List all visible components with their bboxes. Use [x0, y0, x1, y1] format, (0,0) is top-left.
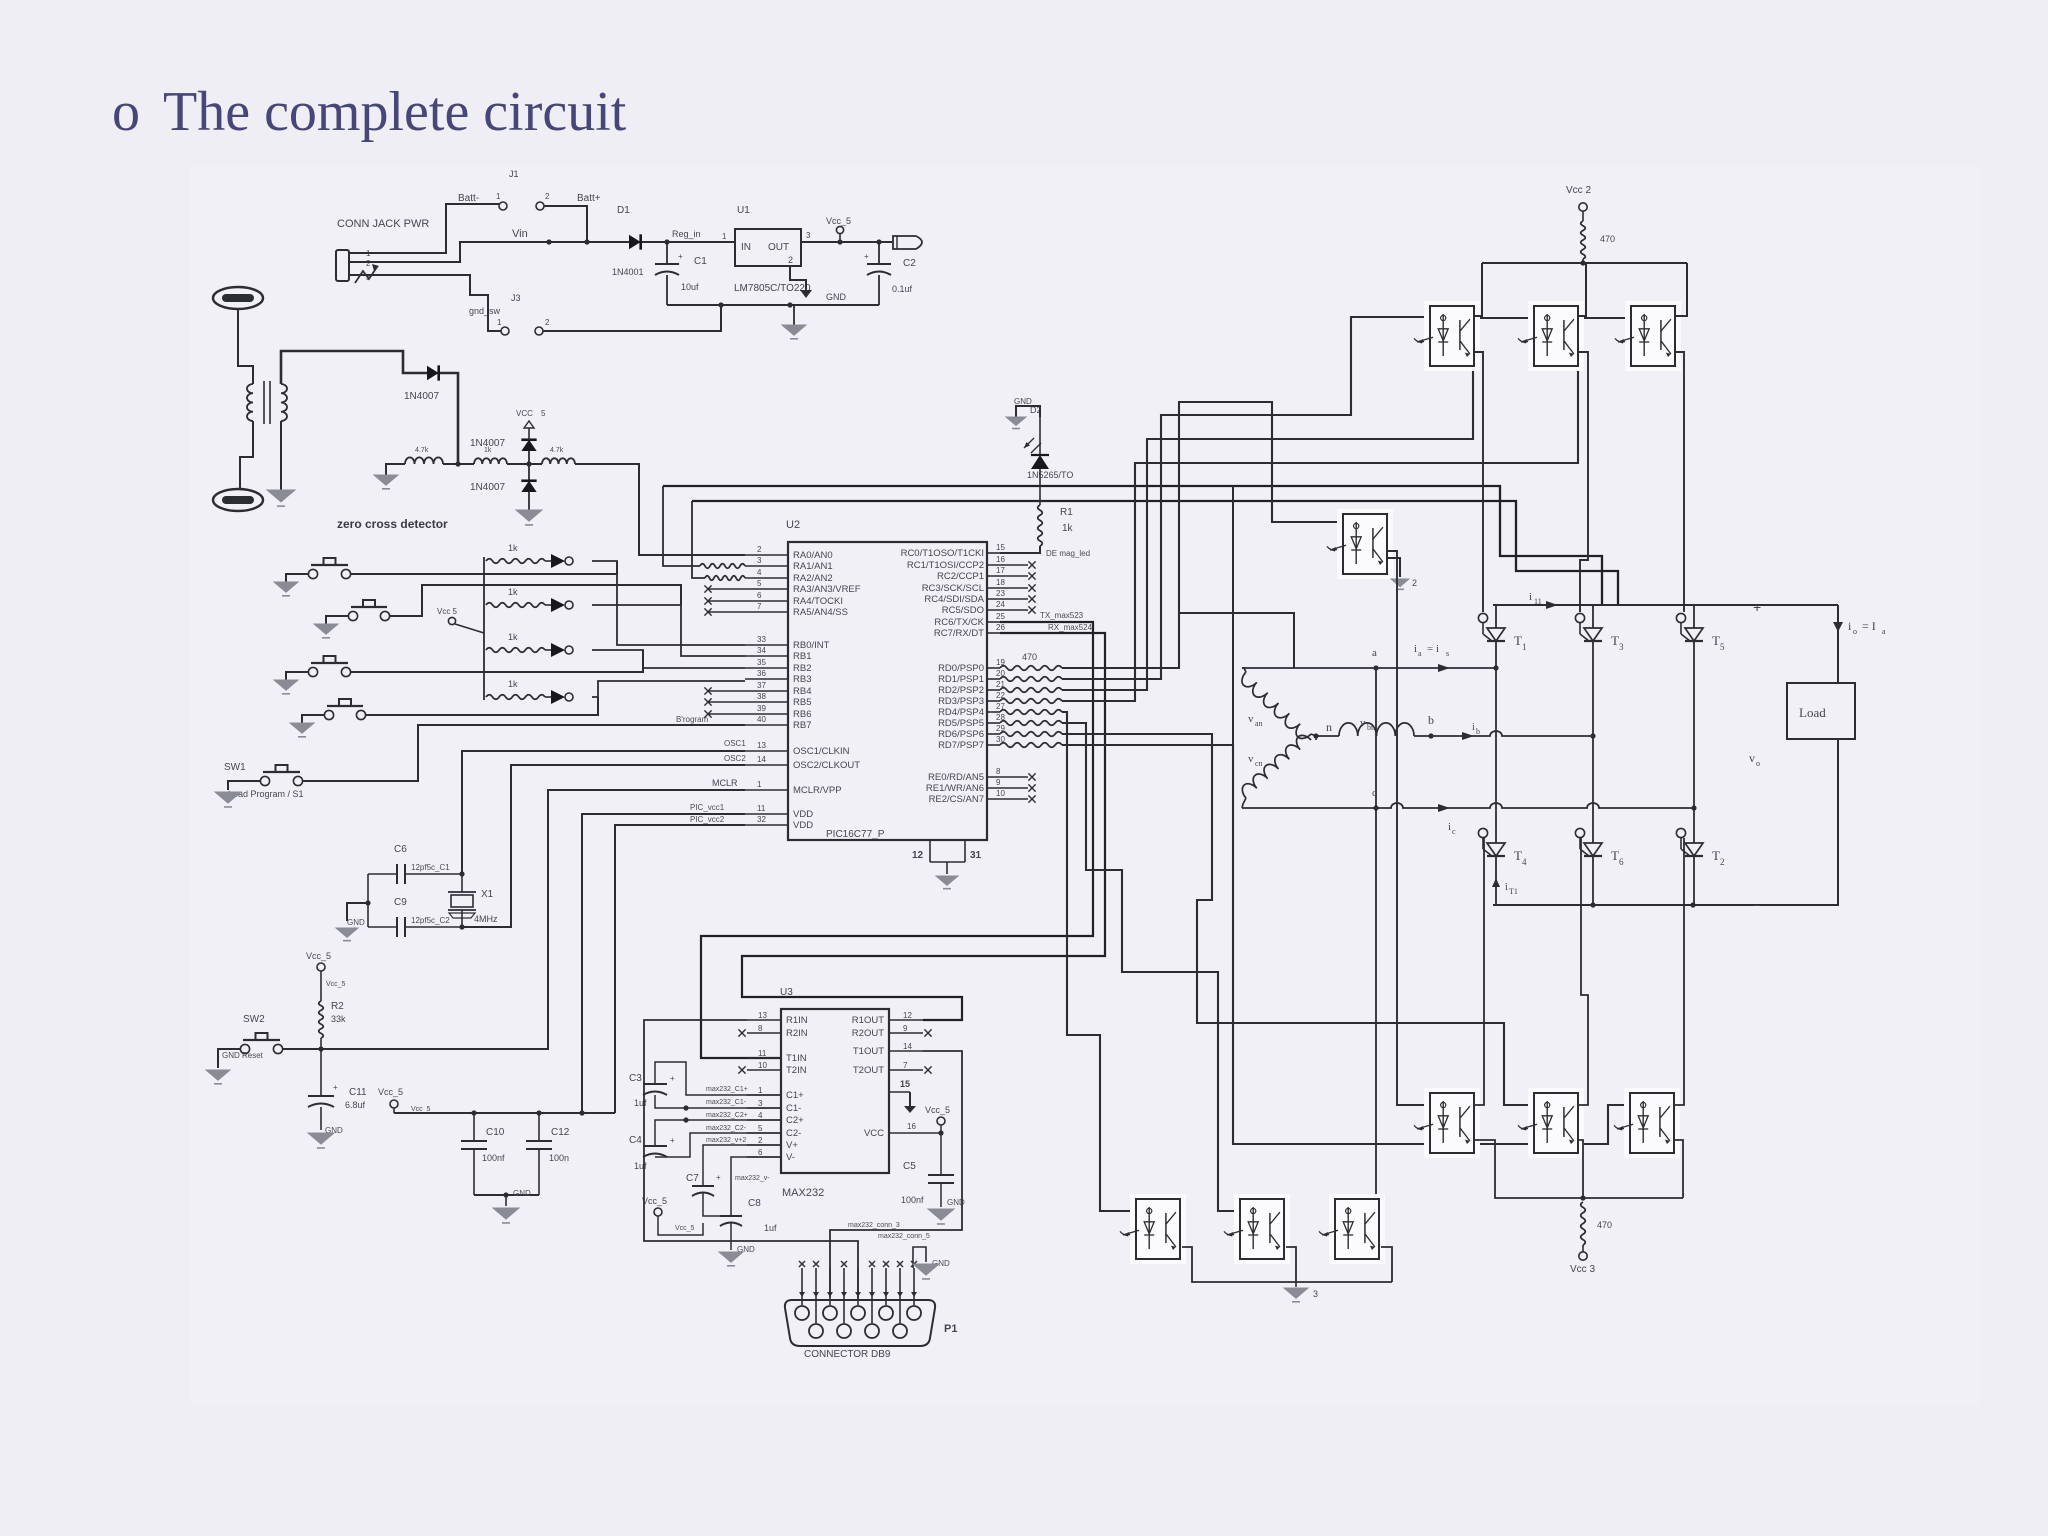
svg-text:10: 10 [996, 789, 1005, 798]
wire opto3 out to T5 gate [1675, 352, 1684, 612]
svg-text:n: n [1326, 720, 1332, 734]
svg-text:C8: C8 [748, 1198, 761, 1209]
svg-text:Vcc_5: Vcc_5 [378, 1087, 403, 1097]
wire button 3 to row [351, 650, 643, 672]
wire button 1 to ground [286, 574, 308, 582]
svg-text:RA1/AN1: RA1/AN1 [793, 561, 833, 572]
svg-text:a: a [1372, 647, 1377, 659]
svg-text:15: 15 [996, 543, 1005, 552]
svg-text:RB6: RB6 [793, 709, 811, 720]
inductor L detector 3 [542, 447, 575, 464]
svg-text:MCLR/VPP: MCLR/VPP [793, 785, 842, 796]
ground arrow at U1 pin2 [800, 290, 812, 298]
svg-text:i: i [1529, 591, 1532, 603]
svg-text:31: 31 [970, 850, 982, 861]
wire RD0 to optocoupler [1062, 402, 1343, 668]
svg-text:5: 5 [758, 1124, 763, 1133]
regulator U1 LM7805 [734, 205, 811, 294]
svg-text:35: 35 [757, 658, 766, 667]
pin 8 RE0/RD/AN5 [928, 767, 1036, 783]
svg-text:RB4: RB4 [793, 686, 811, 697]
svg-text:RD2/PSP2: RD2/PSP2 [938, 685, 984, 696]
svg-text:T1IN: T1IN [786, 1053, 807, 1064]
svg-text:RD6/PSP6: RD6/PSP6 [938, 729, 984, 740]
title text [163, 81, 627, 143]
pin 22 RD3/PSP3 [938, 691, 1005, 707]
pin 12 R1OUT U3 [852, 1011, 923, 1026]
svg-text:max232_v-: max232_v- [735, 1175, 770, 1182]
svg-text:+: + [670, 1074, 675, 1083]
svg-text:GND: GND [826, 292, 847, 302]
wire R1IN to DB9 [644, 1020, 930, 1300]
resistor RA1 input [700, 564, 745, 569]
optocoupler top 1 [1414, 301, 1480, 371]
svg-text:zero cross detector: zero cross detector [337, 517, 448, 531]
svg-text:J3: J3 [511, 293, 521, 303]
svg-text:R2IN: R2IN [786, 1028, 808, 1039]
svg-text:11: 11 [757, 804, 766, 813]
pin 10 RE2/CS/AN7 [929, 789, 1036, 805]
wire RD4 to optocoupler [1062, 712, 1136, 1211]
pin 3 RA1/AN1 [745, 556, 833, 572]
svg-text:10uf: 10uf [681, 282, 699, 292]
svg-text:8: 8 [996, 767, 1001, 776]
pin 9 RE1/WR/AN6 [926, 778, 1036, 794]
power flag Vcc 3 [1570, 1245, 1595, 1275]
svg-text:C12: C12 [551, 1127, 570, 1138]
svg-text:1: 1 [1522, 642, 1527, 652]
svg-text:s: s [1446, 649, 1449, 658]
pin 17 RC2/CCP1 [937, 566, 1036, 582]
pin 8 R2IN U3 [738, 1024, 807, 1039]
svg-text:Vcc 2: Vcc 2 [1566, 185, 1591, 196]
wire row 4 to PIC [592, 681, 745, 697]
pin 33 RB0/INT [745, 635, 830, 651]
load box [1787, 683, 1855, 739]
thyristor T2 [1676, 828, 1724, 905]
thyristor T6 [1575, 828, 1624, 905]
wire secondary top to diode [281, 351, 427, 384]
switch SW1 load program [224, 762, 304, 799]
svg-text:14: 14 [757, 755, 766, 764]
svg-text:2: 2 [1412, 578, 1417, 588]
svg-text:CONN JACK PWR: CONN JACK PWR [337, 218, 429, 230]
svg-text:10: 10 [758, 1061, 767, 1070]
svg-text:Batt-: Batt- [458, 193, 479, 204]
svg-text:8: 8 [758, 1024, 763, 1033]
resistor R1 1k [1038, 469, 1074, 546]
svg-text:SW2: SW2 [243, 1014, 265, 1025]
svg-text:1k: 1k [508, 587, 518, 597]
svg-text:C9: C9 [394, 897, 407, 908]
pin 2 RA0/AN0 [745, 545, 833, 561]
wire load to minus rail [1693, 739, 1838, 913]
ground flag at D2 [1006, 397, 1042, 429]
svg-text:2: 2 [788, 255, 793, 265]
svg-text:Load: Load [1799, 705, 1826, 720]
ground at DB9 [913, 1264, 939, 1279]
capacitor C8 1uf [720, 1198, 777, 1233]
wire filter node 1 [443, 461, 474, 466]
pin 15 RC0/T1OSO/T1CKI [901, 543, 1006, 559]
wire bus RA2 [692, 501, 1618, 605]
svg-text:1N5265/TO: 1N5265/TO [1027, 470, 1073, 480]
pin 4 C2+ U3 [747, 1111, 804, 1126]
svg-text:12pf5c_C1: 12pf5c_C1 [411, 863, 450, 872]
svg-text:OSC1: OSC1 [724, 739, 746, 748]
svg-text:26: 26 [996, 623, 1005, 632]
svg-text:v: v [1360, 717, 1366, 729]
wire SW2 to ground [218, 1049, 240, 1068]
svg-text:Vcc_5: Vcc_5 [326, 981, 346, 988]
wire bus RA1 from detector [663, 486, 1602, 605]
svg-text:24: 24 [996, 600, 1005, 609]
svg-text:c: c [1452, 827, 1456, 836]
svg-text:Vcc_5: Vcc_5 [826, 216, 851, 226]
pin 13 R1IN U3 [747, 1011, 808, 1026]
svg-text:1: 1 [497, 318, 502, 327]
svg-text:v: v [1248, 753, 1254, 765]
svg-text:C10: C10 [486, 1127, 505, 1138]
svg-text:T: T [1611, 633, 1619, 648]
wire C3 to C1+ C1- [655, 1062, 781, 1111]
ground at SW1 [215, 792, 241, 807]
ground at button 3 [274, 680, 298, 694]
winding v_an [1238, 672, 1311, 742]
optocoupler feedback 1 [1120, 1194, 1186, 1264]
pin 25 RC6/TX/CK [934, 612, 1005, 628]
pin 2 V+ U3 [747, 1136, 798, 1151]
optocoupler bottom driver 2 [1518, 1088, 1584, 1158]
svg-text:RD5/PSP5: RD5/PSP5 [938, 718, 984, 729]
svg-text:C1-: C1- [786, 1103, 801, 1114]
wire T1OUT to DB9 [830, 1051, 962, 1297]
svg-text:2: 2 [366, 259, 371, 268]
svg-text:DE mag_led: DE mag_led [1046, 549, 1090, 558]
resistor 470 top [1581, 221, 1615, 263]
svg-text:RE0/RD/AN5: RE0/RD/AN5 [928, 772, 984, 783]
pin 6 RA4/TOCKI [704, 591, 843, 607]
svg-text:1: 1 [758, 1086, 763, 1095]
svg-text:RD7/PSP7: RD7/PSP7 [938, 740, 984, 751]
svg-text:13: 13 [758, 1011, 767, 1020]
pin 35 RB2 [745, 658, 811, 674]
svg-text:4.7k: 4.7k [550, 447, 564, 454]
svg-text:40: 40 [757, 715, 766, 724]
svg-text:+: + [1753, 599, 1761, 615]
DB9 pin wires [799, 1261, 917, 1323]
diode isolation row 4 [545, 690, 573, 704]
wire filter node 2 [507, 461, 542, 466]
svg-text:GND Reset: GND Reset [222, 1051, 264, 1060]
svg-text:1k: 1k [508, 632, 518, 642]
svg-text:RB1: RB1 [793, 651, 811, 662]
svg-text:RB2: RB2 [793, 663, 811, 674]
wire R1 to RC0 pin15 [1000, 546, 1090, 558]
svg-text:0.1uf: 0.1uf [892, 284, 913, 294]
svg-text:C4: C4 [629, 1135, 642, 1146]
pin 18 RC3/SCK/SCL [922, 578, 1036, 594]
ground at mid opto [1387, 558, 1417, 589]
svg-text:RB5: RB5 [793, 697, 811, 708]
svg-text:4: 4 [757, 568, 762, 577]
svg-text:R1OUT: R1OUT [852, 1015, 884, 1026]
svg-text:RX_max524: RX_max524 [1048, 623, 1093, 632]
svg-text:15: 15 [900, 1079, 910, 1089]
svg-text:VCC: VCC [516, 409, 533, 418]
winding v_bn [1339, 717, 1414, 736]
ground 3 at feedback optos [1284, 1282, 1318, 1302]
pin 10 T2IN U3 [738, 1061, 806, 1076]
wire OSC1 net [462, 739, 746, 874]
optocoupler feedback 3 [1319, 1194, 1385, 1264]
resistor 1k pull-up row 2 [486, 587, 545, 607]
svg-text:C7: C7 [686, 1173, 699, 1184]
svg-text:RE1/WR/AN6: RE1/WR/AN6 [926, 783, 984, 794]
svg-text:TX_max523: TX_max523 [1040, 611, 1084, 620]
svg-text:Vcc 3: Vcc 3 [1570, 1264, 1595, 1275]
svg-text:7: 7 [903, 1061, 908, 1070]
svg-text:14: 14 [903, 1042, 912, 1051]
svg-text:37: 37 [757, 681, 766, 690]
inductor L detector 1 [405, 447, 443, 464]
wire diode to filter [440, 373, 458, 464]
thyristor T4 [1478, 828, 1527, 905]
wire phase c [1242, 787, 1697, 836]
svg-text:The complete circuit: The complete circuit [163, 81, 627, 143]
jumper J3 gnd_sw [469, 293, 550, 335]
resistor R2 33k [319, 1001, 346, 1049]
svg-text:max232_v+2: max232_v+2 [706, 1137, 746, 1144]
wire reset node to MCLR [283, 778, 745, 1052]
wire bottom drivers emitter rail [1474, 1140, 1683, 1201]
svg-text:3: 3 [1619, 642, 1624, 652]
pin 37 RB4 [704, 681, 811, 697]
ground at PIC VSS [936, 876, 958, 889]
svg-text:max232_C2-: max232_C2- [706, 1125, 747, 1132]
diode isolation row 2 [545, 598, 573, 612]
push button SW row 2 [348, 600, 389, 621]
pin 14 OSC2/CLKOUT [745, 755, 860, 771]
wire C4 to C2+ C2- [655, 1112, 781, 1157]
thyristor T3 [1575, 605, 1624, 652]
svg-text:U2: U2 [786, 519, 800, 531]
capacitor C12 100n [526, 1113, 570, 1195]
ground at transformer secondary [267, 490, 295, 506]
pin 1 C1+ U3 [747, 1086, 804, 1101]
label Batt+ [577, 193, 601, 204]
svg-text:5: 5 [541, 409, 546, 418]
svg-text:C1+: C1+ [786, 1090, 804, 1101]
wire RD6 to optocoupler [1062, 734, 1534, 1105]
wire DC plus rail [1493, 591, 1838, 615]
wire RD2 to optocoupler [1062, 318, 1534, 690]
svg-text:100nf: 100nf [482, 1153, 505, 1163]
wire opto2 out to T3 gate [1578, 352, 1588, 612]
svg-text:2: 2 [545, 192, 550, 201]
thyristor T1 [1478, 605, 1526, 652]
ground at button 4 [290, 723, 314, 737]
wire phase a sense [1372, 668, 1379, 1211]
svg-text:RA3/AN3/VREF: RA3/AN3/VREF [793, 584, 861, 595]
svg-text:9: 9 [903, 1024, 908, 1033]
svg-text:100n: 100n [549, 1153, 569, 1163]
svg-text:RD0/PSP0: RD0/PSP0 [938, 663, 984, 674]
wire U1 ground rail [667, 266, 879, 308]
svg-text:X1: X1 [481, 889, 494, 900]
diode 1N4007 clamp to Vcc [470, 438, 537, 464]
power flag Vcc_5 at U3 [925, 1105, 950, 1133]
svg-text:1N4007: 1N4007 [470, 438, 505, 449]
capacitor C7 1uf [686, 1173, 721, 1196]
svg-text:i: i [1505, 882, 1508, 893]
svg-text:2: 2 [1720, 857, 1725, 867]
wire opto1 out to T1 gate [1474, 352, 1483, 612]
svg-text:OSC1/CLKIN: OSC1/CLKIN [793, 746, 850, 757]
transformer TR1 [247, 381, 287, 424]
optocoupler bottom driver 3 [1614, 1088, 1680, 1158]
svg-text:T1: T1 [1509, 887, 1518, 896]
svg-text:470: 470 [1597, 1220, 1612, 1230]
svg-text:6: 6 [757, 591, 762, 600]
svg-text:5: 5 [757, 579, 762, 588]
wire RD1 to optocoupler [1062, 317, 1430, 679]
wire C8 V- net [703, 1157, 781, 1216]
connector bullet output [893, 236, 922, 249]
wire phase a [1242, 643, 1499, 672]
pin 26 RC7/RX/DT [934, 623, 1006, 639]
ground at SW2 [206, 1070, 230, 1084]
ground at button 1 [274, 582, 298, 596]
svg-text:Vcc_5: Vcc_5 [925, 1105, 950, 1115]
pin 11 T1IN U3 [747, 1049, 807, 1064]
wire OSC2 net [462, 754, 746, 927]
ground at filter input [374, 464, 405, 489]
connector oval AC line bottom [213, 489, 263, 511]
pin 16 VCC U3 [864, 1122, 944, 1139]
svg-text:LM7805C/TO220: LM7805C/TO220 [734, 283, 811, 294]
wire phase b [1414, 713, 1596, 740]
svg-text:Vcc 5: Vcc 5 [437, 607, 458, 616]
wire jack pin3 to J3 [349, 275, 501, 331]
microcontroller U2 PIC16C77 [786, 519, 987, 840]
wire RD7 to optocoupler [1062, 745, 1630, 1144]
svg-text:MCLR: MCLR [712, 778, 738, 788]
wire VDD pin32 branch [615, 815, 745, 1113]
wire C6 C9 common to ground [347, 874, 371, 927]
svg-text:16: 16 [996, 555, 1005, 564]
capacitor C10 100nf [461, 1113, 505, 1195]
pin 13 OSC1/CLKIN [745, 741, 850, 757]
svg-text:R1IN: R1IN [786, 1015, 808, 1026]
power flag Vcc 2 [1566, 185, 1591, 221]
diode isolation row 3 [545, 643, 573, 657]
svg-text:13: 13 [757, 741, 766, 750]
wire T5 cathode to phase c [1693, 641, 1695, 808]
svg-text:+: + [670, 1136, 675, 1145]
svg-text:R1: R1 [1060, 507, 1073, 518]
svg-text:25: 25 [996, 612, 1005, 621]
svg-text:T: T [1712, 633, 1720, 648]
svg-text:Reg_in: Reg_in [672, 229, 701, 239]
wire U1 OUT to Vcc node [801, 231, 893, 245]
svg-text:100nf: 100nf [901, 1195, 924, 1205]
svg-text:Vcc_5: Vcc_5 [642, 1196, 667, 1206]
svg-text:o: o [112, 81, 140, 143]
svg-text:1N4007: 1N4007 [470, 482, 505, 493]
wire Vcc bus for pull resistors [483, 557, 485, 700]
svg-text:11: 11 [758, 1049, 767, 1058]
wire load branch [1833, 605, 1886, 683]
svg-text:+: + [333, 1083, 338, 1092]
svg-text:36: 36 [757, 669, 766, 678]
capacitor C3 1uf [629, 1073, 675, 1108]
svg-text:PIC_vcc1: PIC_vcc1 [690, 803, 725, 812]
svg-text:C2: C2 [903, 258, 916, 269]
svg-text:B'rogram: B'rogram [676, 715, 709, 724]
svg-text:1uf: 1uf [634, 1098, 647, 1108]
wire SW1 to ground [228, 781, 260, 790]
svg-text:RC5/SDO: RC5/SDO [942, 605, 984, 616]
push button SW row 1 [308, 558, 350, 579]
power flag Vcc_5 at C7 [642, 1196, 703, 1235]
svg-text:4.7k: 4.7k [415, 447, 429, 454]
svg-text:RA5/AN4/SS: RA5/AN4/SS [793, 607, 848, 618]
svg-text:RC4/SDI/SDA: RC4/SDI/SDA [924, 594, 984, 605]
wire RX RC7 to R1OUT [742, 623, 1105, 1020]
label zero cross detector [337, 517, 448, 531]
svg-text:1: 1 [722, 232, 727, 241]
inductor L detector 2 [474, 447, 507, 464]
svg-text:1: 1 [757, 780, 762, 789]
optocoupler mid T1 gate [1327, 509, 1393, 579]
svg-text:o: o [1853, 627, 1857, 636]
svg-text:T: T [1514, 848, 1522, 863]
wire J3 pin2 to ground rail [543, 305, 721, 331]
svg-text:P1: P1 [944, 1323, 957, 1335]
svg-text:RB3: RB3 [793, 674, 811, 685]
svg-text:RC7/RX/DT: RC7/RX/DT [934, 628, 984, 639]
capacitor C6 12pf [368, 844, 465, 884]
svg-text:Vcc_5: Vcc_5 [675, 1225, 695, 1232]
svg-text:T: T [1514, 633, 1522, 648]
svg-text:+: + [864, 252, 869, 261]
capacitor C9 12pf [368, 897, 465, 937]
wire RD3 to optocoupler [1062, 318, 1631, 701]
wire row 2 to PIC [592, 605, 745, 656]
resistor 1k pull-up row 4 [486, 679, 545, 699]
wire Vcc_5 rail to VDD [394, 803, 745, 1116]
pin 28 RD5/PSP5 [938, 713, 1005, 729]
connector jack J? [336, 249, 379, 283]
resistor 470 bottom [1581, 1202, 1612, 1245]
svg-text:max232_C1+: max232_C1+ [706, 1086, 748, 1093]
resistor RA2 input [705, 576, 745, 581]
svg-text:v: v [1248, 713, 1254, 725]
svg-text:T: T [1712, 848, 1720, 863]
title bullet [112, 81, 140, 143]
svg-text:6: 6 [1619, 857, 1624, 867]
connector oval AC line top [213, 287, 263, 309]
svg-text:IN: IN [741, 242, 751, 253]
svg-text:12: 12 [903, 1011, 912, 1020]
pin 40 RB7 [745, 715, 811, 731]
svg-text:Vcc_5: Vcc_5 [411, 1106, 431, 1113]
svg-text:33k: 33k [331, 1014, 346, 1024]
svg-text:470: 470 [1600, 234, 1615, 244]
capacitor C11 6.8uf [308, 1049, 367, 1135]
svg-text:470: 470 [1022, 652, 1037, 662]
